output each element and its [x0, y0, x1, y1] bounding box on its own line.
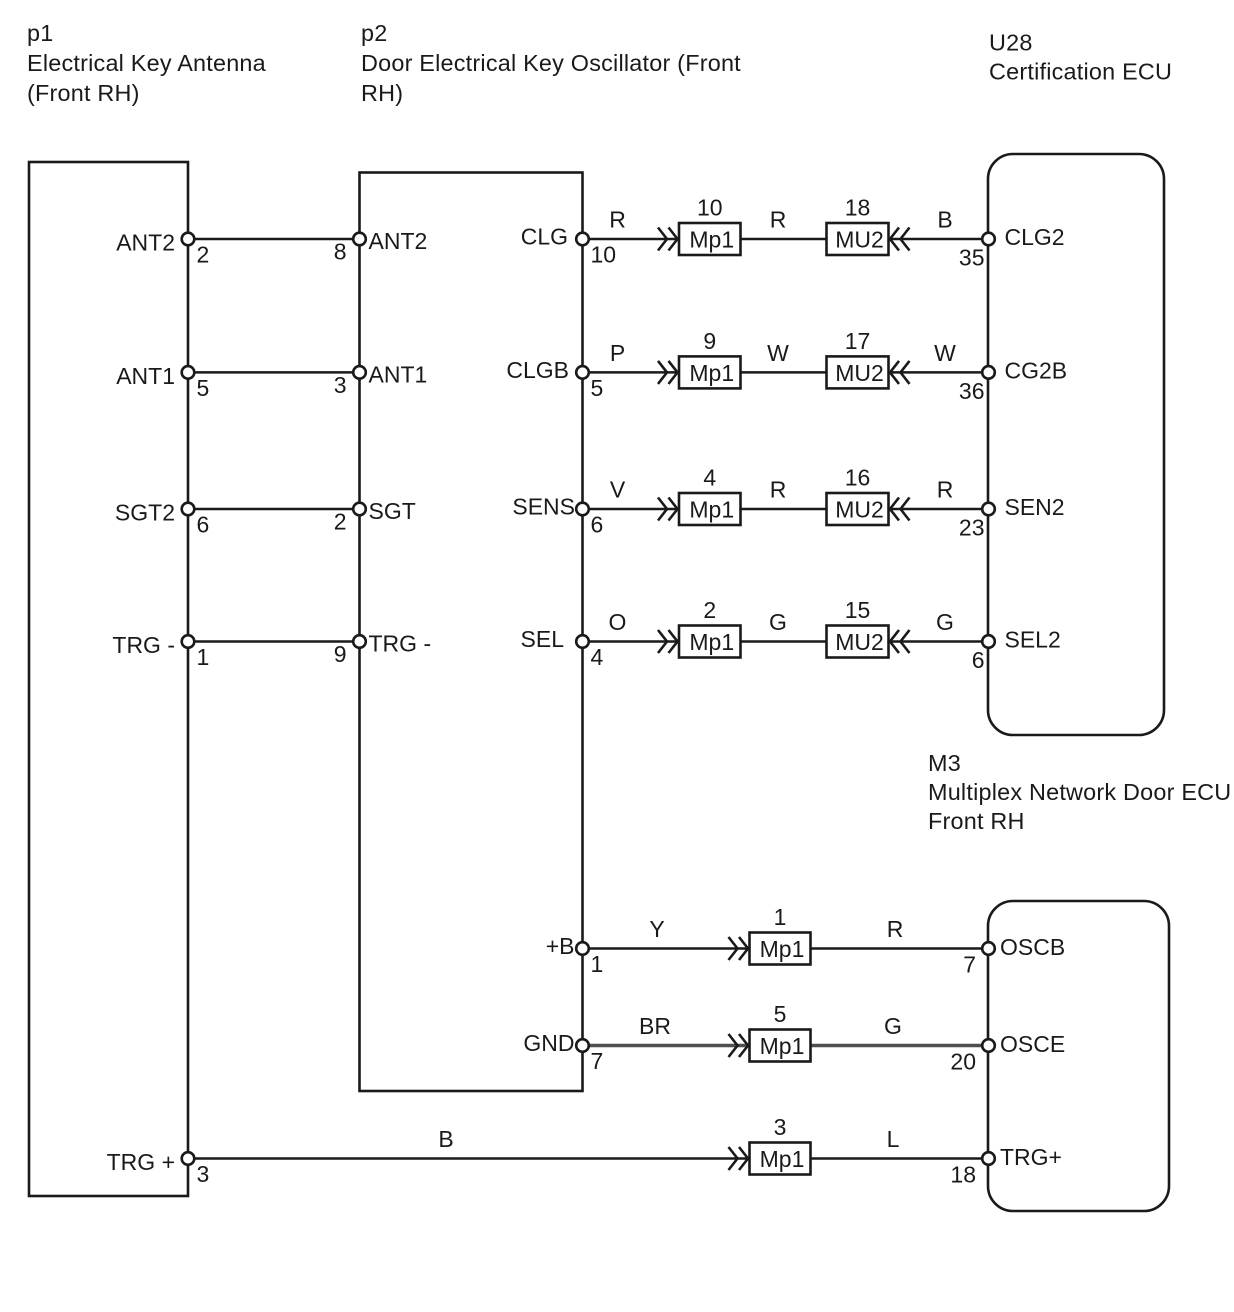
svg-text:18: 18 [950, 1162, 976, 1188]
svg-text:6: 6 [591, 512, 604, 538]
svg-text:Electrical Key Antenna: Electrical Key Antenna [27, 50, 267, 76]
svg-text:Mp1: Mp1 [760, 1146, 805, 1172]
svg-text:ANT2: ANT2 [116, 230, 175, 256]
svg-text:20: 20 [950, 1049, 976, 1075]
svg-text:R: R [770, 207, 787, 233]
svg-text:3: 3 [334, 372, 347, 398]
svg-text:U28: U28 [989, 30, 1033, 56]
svg-text:6: 6 [197, 512, 210, 538]
svg-text:2: 2 [334, 509, 347, 535]
svg-text:CLGB: CLGB [506, 357, 569, 383]
svg-text:CLG: CLG [521, 224, 568, 250]
svg-text:Door Electrical Key Oscillator: Door Electrical Key Oscillator (Front [361, 50, 741, 76]
svg-text:CG2B: CG2B [1005, 357, 1068, 383]
svg-text:Mp1: Mp1 [760, 1033, 805, 1059]
svg-text:Mp1: Mp1 [689, 629, 734, 655]
svg-text:P: P [610, 340, 625, 366]
svg-text:L: L [887, 1126, 900, 1152]
svg-text:ANT1: ANT1 [116, 363, 175, 389]
svg-text:(Front RH): (Front RH) [27, 80, 140, 106]
svg-text:3: 3 [774, 1114, 787, 1140]
svg-text:Mp1: Mp1 [689, 497, 734, 523]
svg-text:TRG+: TRG+ [1000, 1144, 1062, 1170]
svg-text:SEL2: SEL2 [1005, 627, 1061, 653]
svg-text:3: 3 [197, 1161, 210, 1187]
svg-text:TRG -: TRG - [112, 632, 175, 658]
svg-text:W: W [767, 340, 789, 366]
svg-text:7: 7 [591, 1048, 604, 1074]
svg-text:p1: p1 [27, 20, 53, 46]
svg-text:16: 16 [845, 465, 871, 491]
svg-text:Front RH: Front RH [928, 808, 1025, 834]
svg-text:TRG +: TRG + [107, 1149, 175, 1175]
svg-text:4: 4 [591, 644, 604, 670]
svg-text:2: 2 [703, 597, 716, 623]
svg-text:OSCB: OSCB [1000, 934, 1065, 960]
svg-text:SEL: SEL [521, 626, 565, 652]
svg-text:1: 1 [591, 951, 604, 977]
svg-text:Mp1: Mp1 [689, 227, 734, 253]
svg-text:10: 10 [697, 195, 723, 221]
svg-text:Certification ECU: Certification ECU [989, 59, 1172, 85]
svg-text:Y: Y [649, 916, 664, 942]
svg-text:Mp1: Mp1 [689, 360, 734, 386]
svg-text:SGT2: SGT2 [115, 500, 175, 526]
svg-text:G: G [936, 609, 954, 635]
svg-text:Mp1: Mp1 [760, 936, 805, 962]
svg-text:MU2: MU2 [835, 629, 884, 655]
svg-text:B: B [937, 207, 952, 233]
svg-text:8: 8 [334, 239, 347, 265]
svg-text:MU2: MU2 [835, 360, 884, 386]
svg-text:ANT1: ANT1 [369, 361, 428, 387]
svg-text:SENS: SENS [512, 494, 575, 520]
svg-text:R: R [770, 477, 787, 503]
svg-text:CLG2: CLG2 [1005, 224, 1065, 250]
svg-text:4: 4 [703, 465, 716, 491]
svg-text:M3: M3 [928, 750, 961, 776]
svg-text:R: R [887, 916, 904, 942]
svg-text:SGT: SGT [369, 498, 416, 524]
svg-text:OSCE: OSCE [1000, 1031, 1065, 1057]
svg-text:36: 36 [959, 378, 985, 404]
svg-text:R: R [609, 207, 626, 233]
svg-text:1: 1 [197, 644, 210, 670]
svg-text:23: 23 [959, 515, 985, 541]
svg-text:18: 18 [845, 195, 871, 221]
svg-text:ANT2: ANT2 [369, 228, 428, 254]
svg-text:W: W [934, 340, 956, 366]
svg-text:G: G [769, 609, 787, 635]
svg-text:MU2: MU2 [835, 227, 884, 253]
svg-text:5: 5 [591, 375, 604, 401]
svg-text:17: 17 [845, 328, 871, 354]
svg-text:35: 35 [959, 245, 985, 271]
svg-text:SEN2: SEN2 [1005, 494, 1065, 520]
svg-text:R: R [937, 477, 954, 503]
svg-text:9: 9 [334, 641, 347, 667]
svg-text:5: 5 [197, 375, 210, 401]
svg-text:B: B [438, 1126, 453, 1152]
svg-text:G: G [884, 1013, 902, 1039]
svg-text:RH): RH) [361, 80, 403, 106]
svg-text:10: 10 [591, 242, 617, 268]
svg-text:O: O [609, 609, 627, 635]
svg-text:p2: p2 [361, 20, 387, 46]
svg-text:BR: BR [639, 1013, 671, 1039]
svg-text:MU2: MU2 [835, 497, 884, 523]
svg-text:+B: +B [546, 933, 575, 959]
svg-text:7: 7 [963, 952, 976, 978]
svg-text:Multiplex Network Door ECU: Multiplex Network Door ECU [928, 779, 1231, 805]
svg-text:V: V [610, 477, 626, 503]
svg-text:GND: GND [523, 1030, 574, 1056]
svg-text:9: 9 [703, 328, 716, 354]
svg-text:5: 5 [774, 1001, 787, 1027]
svg-text:15: 15 [845, 597, 871, 623]
svg-text:TRG -: TRG - [369, 631, 432, 657]
svg-text:1: 1 [774, 904, 787, 930]
svg-text:2: 2 [197, 242, 210, 268]
svg-text:6: 6 [972, 647, 985, 673]
